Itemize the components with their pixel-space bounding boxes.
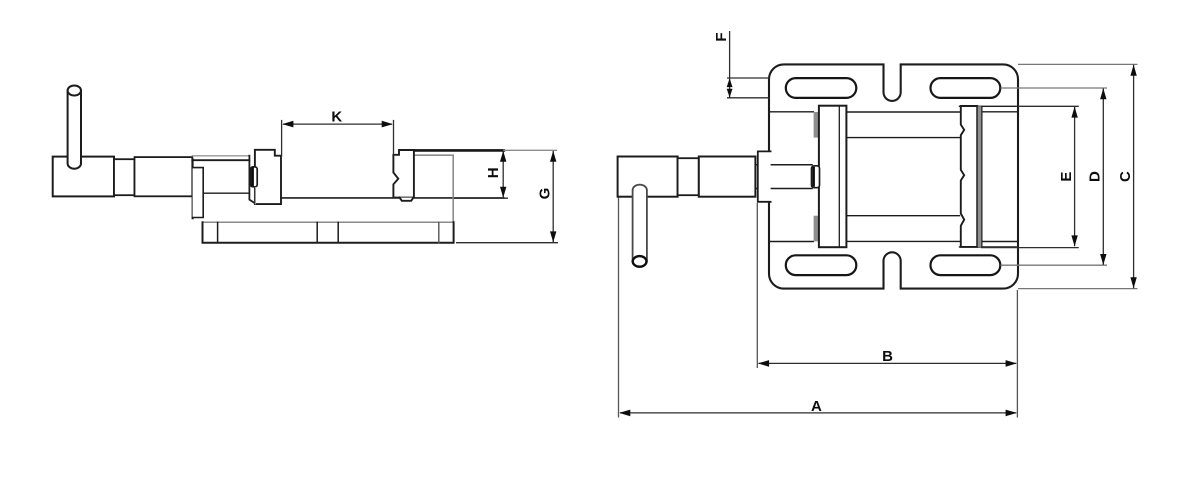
thrust collar on moving jaw — [251, 167, 258, 187]
svg-text:E: E — [1058, 172, 1075, 182]
way channel line lower-right — [983, 241, 1018, 243]
dimension A — [619, 198, 1017, 418]
rear support block (grey) — [414, 155, 453, 222]
base top line — [203, 221, 454, 223]
F label — [713, 33, 730, 42]
slot top-left — [786, 78, 857, 98]
handle end block — [53, 157, 114, 197]
handle rod side view — [68, 86, 81, 169]
carriage bracket — [193, 168, 204, 218]
K arrowheads — [282, 121, 393, 128]
slot top-right — [931, 78, 1001, 98]
way inner top — [847, 137, 960, 139]
fixed jaw — [393, 150, 414, 198]
svg-text:D: D — [1087, 171, 1104, 182]
base slot left line — [316, 222, 318, 242]
base slot right line — [337, 222, 339, 242]
movable jaw grey gib upper — [814, 112, 819, 138]
svg-text:F: F — [713, 33, 730, 42]
dimension H — [454, 151, 508, 198]
dimension C — [1018, 64, 1138, 288]
spindle body line — [192, 159, 249, 161]
spindle bottom line — [204, 192, 249, 194]
K extension line right — [393, 120, 395, 155]
E label — [1058, 172, 1075, 182]
handle block 2 — [678, 158, 699, 195]
dimension F — [727, 31, 770, 98]
fixed jaw support top line — [960, 105, 1017, 107]
moving jaw front plate — [249, 156, 255, 204]
K extension line left — [281, 120, 283, 157]
svg-text:H: H — [485, 167, 502, 178]
moving jaw block — [255, 150, 281, 204]
base rib line right — [438, 222, 440, 242]
screw shaft top line — [756, 164, 812, 166]
spindle top grey line — [192, 155, 249, 157]
dimension G — [456, 151, 558, 243]
base outline — [203, 222, 454, 242]
fixed jaw gib edge — [981, 106, 983, 247]
carriage plate edge — [192, 159, 194, 218]
spindle collar segment — [114, 159, 135, 195]
movable jaw inner line — [838, 106, 840, 248]
G label — [536, 188, 553, 200]
movable jaw grey gib lower — [814, 216, 819, 242]
handle block 1 — [618, 157, 678, 197]
way channel line lower-left — [770, 241, 814, 243]
D label — [1087, 171, 1104, 182]
svg-text:C: C — [1117, 171, 1134, 182]
handle rod end cap — [633, 256, 647, 267]
svg-text:G: G — [536, 188, 553, 200]
fixed jaw plate with serrated face — [961, 106, 977, 247]
handle block 3 — [699, 157, 756, 197]
screw collar — [812, 166, 820, 188]
dimension K — [282, 120, 394, 157]
jaw front step line — [254, 188, 256, 204]
C label — [1117, 171, 1134, 182]
handle rod top view — [633, 185, 647, 262]
svg-text:B: B — [882, 348, 893, 365]
K dimension line — [283, 123, 392, 125]
screw shaft bottom line — [756, 188, 812, 190]
dimension D — [1001, 88, 1108, 265]
way edge bottom — [847, 240, 960, 242]
movable jaw plate — [819, 106, 847, 248]
way channel line upper-right — [983, 111, 1018, 113]
top surface line (H/G extension) — [415, 149, 504, 152]
base rib line left — [217, 222, 219, 242]
slot bottom-right — [931, 255, 1001, 275]
dimension E — [981, 106, 1079, 247]
fixed jaw support bottom line — [960, 246, 1017, 248]
svg-text:A: A — [811, 398, 822, 415]
screw boss — [758, 151, 771, 201]
body plate outline with notches — [769, 64, 1018, 288]
rail top line — [281, 197, 504, 199]
way channel line upper-left — [770, 111, 814, 113]
dimension B — [757, 203, 1017, 418]
H label — [485, 167, 502, 178]
svg-text:K: K — [331, 108, 342, 125]
way inner bottom — [847, 215, 960, 217]
slot bottom-left — [786, 255, 857, 275]
way edge top — [847, 111, 960, 113]
fixed jaw bottom tab — [400, 198, 414, 201]
fixed jaw grey gib — [978, 106, 982, 247]
screw cylinder — [135, 157, 193, 196]
